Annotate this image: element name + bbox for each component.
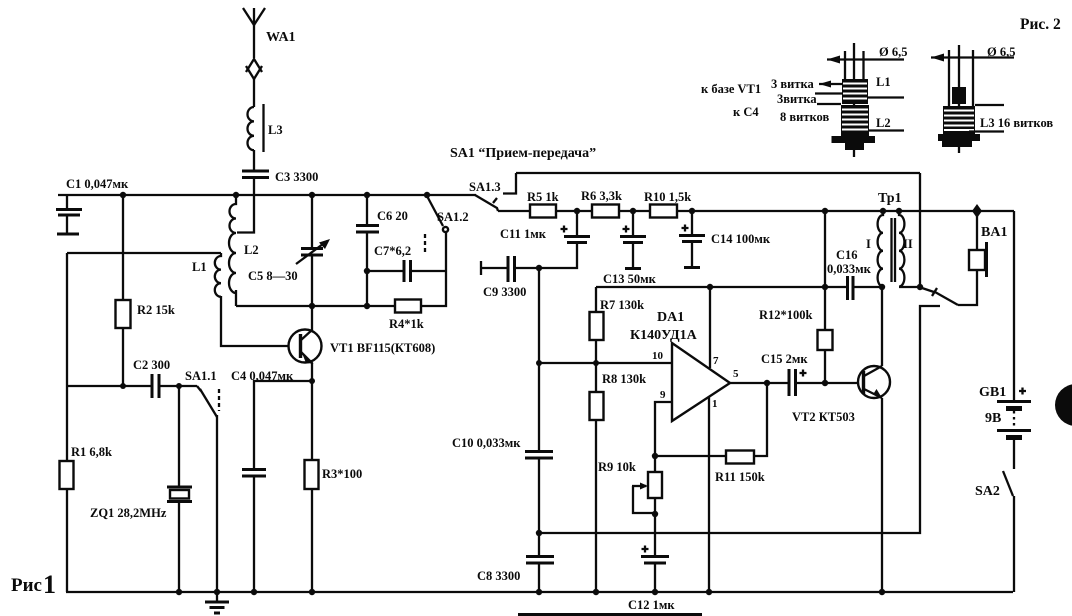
svg-text:9В: 9В xyxy=(985,411,1001,426)
capacitor C9 3300 xyxy=(481,256,539,299)
bottom scan edge line xyxy=(518,613,702,616)
inductor L1 xyxy=(192,253,289,346)
svg-text:C9 3300: C9 3300 xyxy=(483,285,526,299)
capacitor C14 100мк xyxy=(679,211,771,268)
svg-text:C6 20: C6 20 xyxy=(377,209,408,223)
transistor VT2 КТ503 xyxy=(792,366,890,424)
node C10/C8/down-line xyxy=(536,530,542,536)
svg-text:R4*1k: R4*1k xyxy=(389,317,424,331)
svg-text:C15 2мк: C15 2мк xyxy=(761,352,808,366)
speaker BA1 xyxy=(969,211,1007,277)
node C6 bottom xyxy=(364,303,370,309)
switch SA1.4 speaker xyxy=(922,270,977,305)
node VT2 emitter/rail xyxy=(879,589,885,595)
svg-text:3 витка: 3 витка xyxy=(771,77,814,91)
svg-text:R6 3,3k: R6 3,3k xyxy=(581,189,622,203)
node R9 wiper tie xyxy=(652,511,658,517)
svg-text:C16: C16 xyxy=(836,248,858,262)
node C9/C11 xyxy=(536,265,542,271)
wire VT2 collector xyxy=(881,287,883,366)
inductor L2 xyxy=(229,195,259,306)
svg-text:C1 0,047мк: C1 0,047мк xyxy=(66,177,129,191)
variable capacitor C5 8-30 xyxy=(248,195,330,306)
wire C3 to L2 tap xyxy=(237,177,254,233)
svg-text:VT2 КТ503: VT2 КТ503 xyxy=(792,410,855,424)
capacitor C1 0,047мк xyxy=(56,177,129,234)
capacitor C2 300 xyxy=(133,358,197,398)
wire C2 line xyxy=(67,385,151,387)
scan blob xyxy=(1055,384,1072,426)
node R12/C16 supply xyxy=(822,284,828,290)
transistor VT1 BF115(KT608) xyxy=(289,306,436,364)
svg-text:5: 5 xyxy=(733,368,739,380)
node C6/C7 xyxy=(364,268,370,274)
svg-text:L2: L2 xyxy=(244,243,259,257)
svg-text:C4 0,047мк: C4 0,047мк xyxy=(231,369,294,383)
wire pin7 supply xyxy=(709,287,711,368)
coil form L1/L2 winding drawing xyxy=(701,43,907,157)
wire VT1 emitter xyxy=(311,363,313,460)
capacitor C12 1мк xyxy=(628,546,675,613)
label Рис1 xyxy=(11,570,56,599)
svg-text:C8 3300: C8 3300 xyxy=(477,569,520,583)
transformer Tr1 xyxy=(866,191,920,287)
node rail/BA1 xyxy=(972,204,982,218)
wire C9 node down xyxy=(538,268,540,451)
wire bottom rail xyxy=(66,591,1013,593)
op-amp DA1 К140УД1А xyxy=(630,310,739,421)
svg-text:L1: L1 xyxy=(192,260,207,274)
node R3/rail xyxy=(309,589,315,595)
resistor R2 15k xyxy=(116,300,175,386)
wire audio common to speaker switch xyxy=(539,306,940,533)
svg-text:C11 1мк: C11 1мк xyxy=(500,227,547,241)
svg-text:C12 1мк: C12 1мк xyxy=(628,598,675,612)
svg-text:GB1: GB1 xyxy=(979,385,1006,400)
svg-text:R11 150k: R11 150k xyxy=(715,470,765,484)
svg-text:9: 9 xyxy=(660,389,666,401)
capacitor C4 0,047мк xyxy=(231,369,312,592)
wire resonant bottom y=306 xyxy=(236,305,395,307)
node bus/C5 xyxy=(309,192,315,198)
resistor R8 130k xyxy=(590,363,647,592)
node bus/SA1.2 xyxy=(424,192,430,198)
svg-text:L2: L2 xyxy=(876,116,891,130)
svg-text:8 витков: 8 витков xyxy=(780,110,829,124)
svg-text:к базе VT1: к базе VT1 xyxy=(701,82,761,96)
node R10/C14 xyxy=(689,208,695,214)
svg-text:C13 50мк: C13 50мк xyxy=(603,272,657,286)
svg-text:I: I xyxy=(866,237,871,251)
coil form L3 winding drawing xyxy=(931,45,1053,153)
svg-text:R5 1k: R5 1k xyxy=(527,190,559,204)
switch SA1.1 xyxy=(185,369,219,592)
wire DA1 supply line y=287 xyxy=(596,286,847,288)
svg-text:C10 0,033мк: C10 0,033мк xyxy=(452,436,521,450)
svg-text:к С4: к С4 xyxy=(733,105,759,119)
capacitor C16 0,033мк xyxy=(827,248,882,300)
svg-text:R12*100k: R12*100k xyxy=(759,308,813,322)
node pin7 drop xyxy=(707,284,713,290)
resistor R7 130k xyxy=(590,287,645,363)
svg-text:1: 1 xyxy=(43,570,56,599)
node DA1 output xyxy=(764,380,770,386)
wire pin10 line xyxy=(539,362,672,364)
svg-text:WA1: WA1 xyxy=(266,30,296,45)
potentiometer R9 10k xyxy=(598,456,662,556)
svg-text:SA2: SA2 xyxy=(975,484,1000,499)
svg-text:R8 130k: R8 130k xyxy=(602,372,646,386)
wire TX line top xyxy=(516,172,920,174)
svg-text:R9 10k: R9 10k xyxy=(598,460,636,474)
svg-text:L1: L1 xyxy=(876,75,891,89)
svg-text:R1 6,8k: R1 6,8k xyxy=(71,445,112,459)
wire SA1.3 to R5 xyxy=(498,210,530,212)
wire right rail down xyxy=(1013,211,1015,401)
wire pin1 ground xyxy=(708,397,710,592)
wire left rail xyxy=(66,253,68,592)
resistor R6 3,3k xyxy=(581,189,650,218)
svg-text:ZQ1 28,2MHz: ZQ1 28,2MHz xyxy=(90,506,167,520)
resistor R3*100 xyxy=(305,460,363,592)
node rail/R12 xyxy=(822,208,828,214)
rail/bottom nodes xyxy=(536,589,542,595)
svg-text:1: 1 xyxy=(712,398,718,410)
resistor R4*1k xyxy=(389,271,446,331)
node ZQ1/rail xyxy=(176,589,182,595)
quartz ZQ1 28,2MHz xyxy=(90,386,192,592)
node bus/L2 xyxy=(233,192,239,198)
svg-text:R7 130k: R7 130k xyxy=(600,298,644,312)
svg-text:R2 15k: R2 15k xyxy=(137,303,175,317)
resistor R5 1k xyxy=(527,190,592,218)
wire pin9 input xyxy=(655,402,672,456)
svg-text:Рис: Рис xyxy=(11,575,42,596)
node C5/collector xyxy=(309,303,315,309)
capacitor C15 2мк xyxy=(761,352,858,396)
wire L1 top link xyxy=(67,252,221,254)
svg-text:C2 300: C2 300 xyxy=(133,358,170,372)
svg-text:C3 3300: C3 3300 xyxy=(275,170,318,184)
svg-text:Ø 6,5: Ø 6,5 xyxy=(879,45,907,59)
resistor R10 1,5k xyxy=(644,190,1014,218)
capacitor C13 50мк xyxy=(603,211,657,286)
switch SA2 xyxy=(975,471,1014,592)
svg-text:SA1.1: SA1.1 xyxy=(185,369,217,383)
node C2/ZQ1 xyxy=(176,383,182,389)
node R6/R10/C13 xyxy=(630,208,636,214)
svg-text:Ø 6,5: Ø 6,5 xyxy=(987,45,1015,59)
svg-text:7: 7 xyxy=(713,355,719,367)
svg-text:Рис. 2: Рис. 2 xyxy=(1020,16,1061,33)
svg-text:К140УД1А: К140УД1А xyxy=(630,328,698,343)
svg-text:3витка: 3витка xyxy=(777,92,817,106)
resistor R11 150k xyxy=(655,383,767,484)
svg-text:SA1 “Прием-передача”: SA1 “Прием-передача” xyxy=(450,146,596,161)
node R7/R8 xyxy=(593,360,599,366)
node SA1.1/rail xyxy=(214,589,220,595)
capacitor C3 3300 xyxy=(242,170,318,184)
svg-text:C5 8—30: C5 8—30 xyxy=(248,269,298,283)
svg-text:SA1.2: SA1.2 xyxy=(437,210,469,224)
inductor L3 (antenna coil) xyxy=(247,104,282,170)
capacitor C6 20 xyxy=(356,195,408,306)
resistor R1 6,8k xyxy=(60,445,113,489)
svg-text:R3*100: R3*100 xyxy=(322,467,362,481)
capacitor C7*6,2 xyxy=(367,244,446,282)
svg-text:Тр1: Тр1 xyxy=(878,191,902,206)
switch SA1.2 xyxy=(425,196,469,271)
node bus/R2 xyxy=(120,192,126,198)
svg-text:C14 100мк: C14 100мк xyxy=(711,232,771,246)
svg-text:L3: L3 xyxy=(268,123,283,137)
wire DA1 output xyxy=(730,382,789,384)
resistor R12*100k xyxy=(759,211,833,383)
wire VT2 emitter xyxy=(881,398,883,592)
wire main bus y=195 xyxy=(58,194,476,196)
node R5/R6/C11 xyxy=(574,208,580,214)
battery GB1 9В xyxy=(979,385,1031,469)
antenna WA1 xyxy=(243,8,296,107)
svg-text:DA1: DA1 xyxy=(657,310,684,325)
svg-text:10: 10 xyxy=(652,350,664,362)
node C15/R12/VT2 base xyxy=(822,380,828,386)
svg-text:C7*6,2: C7*6,2 xyxy=(374,244,411,258)
svg-text:BA1: BA1 xyxy=(981,225,1007,240)
node emitter/C4 xyxy=(309,378,315,384)
capacitor C11 1мк xyxy=(500,211,590,268)
svg-text:0,033мк: 0,033мк xyxy=(827,262,872,276)
svg-text:SA1.3: SA1.3 xyxy=(469,180,501,194)
node C4/rail xyxy=(251,589,257,595)
node bus/C6 xyxy=(364,192,370,198)
node Tr1 primary bottom/collector xyxy=(879,284,885,290)
svg-text:II: II xyxy=(903,237,913,251)
capacitor C10 0,033мк xyxy=(452,436,553,533)
ground xyxy=(205,592,229,613)
node C9 branch/pin10 xyxy=(536,360,542,366)
node R2/C2 line xyxy=(120,383,126,389)
wire R2 branch xyxy=(122,195,124,300)
svg-text:L3 16 витков: L3 16 витков xyxy=(980,116,1053,130)
wire TX line down xyxy=(919,173,921,287)
node feedback/R9 xyxy=(652,453,658,459)
capacitor C8 3300 xyxy=(477,533,554,592)
svg-text:R10 1,5k: R10 1,5k xyxy=(644,190,691,204)
node Tr1 secondary/switch xyxy=(917,284,923,290)
svg-text:VT1 BF115(КТ608): VT1 BF115(КТ608) xyxy=(330,341,435,355)
switch SA1.3 xyxy=(469,173,516,211)
